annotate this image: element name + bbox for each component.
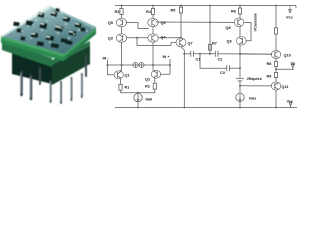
- wire C3 riser: [200, 54, 227, 68]
- resistor R3: [120, 6, 123, 19]
- resistor R6: [238, 6, 241, 19]
- wire Q7 base stub: [171, 42, 177, 44]
- capacitor C2: [215, 51, 218, 57]
- wire VAS column down: [239, 45, 241, 77]
- wire Q6 collector to Q8 base: [156, 21, 235, 23]
- svg-text:R1: R1: [125, 85, 130, 89]
- resistor R1: [119, 79, 122, 93]
- wire input clamp line: [108, 64, 171, 66]
- svg-text:C3: C3: [220, 71, 225, 75]
- svg-text:Q5: Q5: [108, 21, 113, 25]
- socket body: [12, 41, 90, 85]
- current source Itail: [134, 93, 142, 101]
- svg-text:Vcc: Vcc: [286, 15, 293, 19]
- socket right top sliver: [52, 41, 90, 65]
- wire R7 column from top rail: [209, 6, 211, 54]
- capacitor C1: [191, 51, 194, 57]
- svg-text:Q3: Q3: [108, 37, 113, 41]
- wire tail join: [121, 92, 155, 94]
- wire Q11 emitter to rail: [275, 90, 277, 107]
- board top face: [1, 6, 96, 54]
- resistor R9: [274, 69, 277, 82]
- resistor R7 box: [208, 45, 211, 51]
- terminal Vcc arrow: [289, 6, 292, 13]
- svg-text:IN +: IN +: [163, 55, 171, 59]
- capacitor C3: [227, 65, 230, 71]
- bright top-left edge highlight: [1, 6, 52, 37]
- junction dots: [107, 5, 278, 109]
- svg-text:IN -: IN -: [103, 57, 110, 61]
- pin 1: [20, 72, 23, 95]
- pin 2: [30, 76, 33, 99]
- wire bottom rail: [115, 107, 297, 109]
- wire VBquies to Ivas: [239, 81, 241, 93]
- pins: [21, 56, 86, 103]
- wire colA Q3 to Q1: [121, 42, 123, 71]
- wire output node: [276, 68, 294, 70]
- wire Q7 emitter to C-wire junction: [181, 47, 184, 54]
- pin 4: [60, 82, 62, 103]
- svg-text:R9: R9: [267, 74, 272, 78]
- wire compensation line (C1,C2) to Q10 base: [184, 53, 191, 55]
- terminal Vo arrow: [291, 65, 294, 70]
- svg-text:R3: R3: [115, 10, 120, 14]
- component glints: [31, 11, 79, 37]
- svg-text:Ivas: Ivas: [249, 97, 256, 101]
- resistor R2: [153, 78, 156, 93]
- transistor Q11: [271, 82, 281, 90]
- current source Ivas: [236, 93, 244, 101]
- svg-text:Q8: Q8: [226, 26, 231, 30]
- pin 6: [81, 74, 83, 97]
- terminal Vee arrow: [289, 103, 292, 108]
- pin 5: [70, 78, 72, 100]
- svg-text:Q2: Q2: [145, 77, 150, 81]
- transistor Q10: [271, 50, 281, 58]
- svg-text:Q11: Q11: [282, 85, 289, 89]
- diode clamp pair: [133, 62, 144, 67]
- wire colB Q4 to Q2: [152, 42, 154, 70]
- solder dots: [21, 11, 88, 43]
- wire colB Q6-Q4: [152, 27, 154, 34]
- pin 8 back row: [85, 56, 87, 76]
- svg-text:C1: C1: [196, 58, 201, 62]
- wire top rail: [115, 5, 296, 7]
- pin 3: [50, 81, 52, 102]
- components on board: [13, 8, 85, 49]
- wire top rail end tick: [295, 6, 297, 9]
- wire bias box to Q10 collector: [275, 34, 277, 50]
- wire tail drop: [137, 92, 139, 95]
- wire Q8-Q9 column: [239, 27, 241, 37]
- wire IN- drop to Q1 base: [108, 60, 115, 75]
- svg-text:Q9: Q9: [227, 40, 232, 44]
- svg-text:R4: R4: [146, 10, 152, 14]
- board second edge strip (lower pcb): [2, 42, 52, 68]
- wire Q3/Q4 base tie: [126, 37, 148, 39]
- transistor Q9: [236, 37, 246, 46]
- resistor R5: [179, 6, 182, 39]
- wire C3 to VAS column: [229, 67, 240, 69]
- wire Q7 emitter column to bottom rail: [183, 54, 185, 108]
- svg-text:Q7: Q7: [188, 41, 193, 45]
- wire C2 to Q10 base: [218, 53, 272, 55]
- wire Q4 to Q7 collector: [158, 37, 181, 39]
- transistor Q6: [148, 18, 158, 26]
- wire Q10 base line: [240, 53, 272, 55]
- battery VBquies: [236, 78, 244, 81]
- svg-text:R6: R6: [231, 9, 236, 13]
- svg-text:Vee: Vee: [287, 99, 294, 103]
- transistor Q3: [116, 34, 126, 42]
- svg-text:Itail: Itail: [146, 97, 153, 101]
- socket right face: [52, 45, 90, 85]
- svg-text:R7: R7: [212, 41, 217, 45]
- wire output column from rail: [275, 6, 277, 28]
- board bottom-right edge (bright green): [64, 27, 96, 61]
- wire Itail to rail: [137, 102, 139, 108]
- wire Ivas to rail: [239, 102, 241, 108]
- socket left-front face: [12, 49, 52, 84]
- transistor Q8: [234, 18, 244, 27]
- svg-text:Q10: Q10: [284, 53, 291, 57]
- wire C1 to C2: [193, 53, 215, 55]
- wire tie center tap: [137, 38, 171, 46]
- transistor Q5: [116, 18, 126, 26]
- svg-text:Vo: Vo: [291, 61, 296, 65]
- wire Q1 collector: [121, 69, 122, 71]
- svg-text:VCascode: VCascode: [254, 13, 258, 31]
- svg-text:Q6: Q6: [161, 21, 166, 25]
- resistor (cascode bias) box: [274, 28, 277, 34]
- svg-text:R2: R2: [145, 84, 150, 88]
- svg-text:VBquies: VBquies: [247, 77, 262, 81]
- wire IN+ drop to Q2 base: [160, 59, 170, 74]
- board bottom-left edge (bright green): [1, 36, 64, 61]
- svg-text:R5: R5: [171, 9, 176, 13]
- resistor R4: [151, 6, 154, 19]
- svg-text:Q4: Q4: [161, 36, 167, 40]
- transistor Q7: [176, 38, 186, 47]
- transistor Q2: [151, 70, 160, 78]
- wire VCascode tie: [243, 22, 251, 40]
- wire colA Q5-Q3: [121, 27, 123, 34]
- svg-text:Q1: Q1: [125, 74, 130, 78]
- svg-text:R8: R8: [267, 62, 272, 66]
- svg-text:C2: C2: [218, 58, 223, 62]
- transistor Q1: [114, 71, 123, 79]
- pin 7 back row: [39, 68, 41, 84]
- resistor R8: [274, 59, 277, 70]
- transistor Q4: [148, 34, 158, 42]
- wire Q5 base cross-connect: [126, 23, 149, 29]
- wire Q11 base line: [240, 85, 272, 87]
